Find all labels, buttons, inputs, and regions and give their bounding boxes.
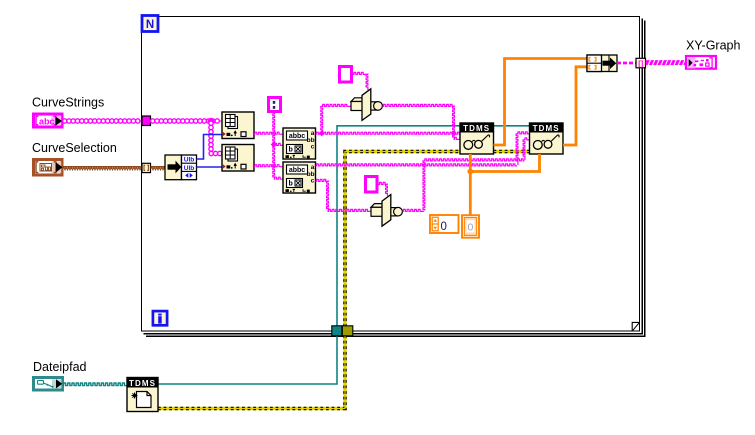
wire string branch up to Select 1 input	[321, 104, 351, 133]
control terminal Dateipfad (path)	[34, 378, 63, 391]
wire string Match Pattern 2 'c' output to Select 2 input	[316, 179, 372, 211]
Index Array 1	[222, 112, 254, 139]
svg-text:abc: abc	[39, 116, 55, 126]
wire string Index Array 1 to Match Pattern 1	[254, 132, 283, 134]
junction orange wire	[467, 169, 473, 175]
wire tdms-refnum TDMS Open to loop tunnel and TDMS Read 1	[158, 126, 460, 384]
control terminal CurveStrings (array of strings)	[34, 114, 63, 127]
svg-text:0: 0	[441, 221, 447, 233]
empty string constant 2	[366, 177, 378, 193]
Index Array 2	[222, 145, 254, 172]
indicator terminal XY-Graph	[686, 56, 716, 69]
wire CurveSelection brown array to loop tunnel	[63, 167, 143, 170]
TDMS Open node	[127, 378, 158, 412]
wire string Match Pattern 1 'a' output to TDMS Read 1 group input	[316, 132, 461, 134]
wire error TDMS Open to loop tunnel and TDMS Read 1	[158, 152, 460, 409]
wire string Select 2 output to TDMS Read 2 channel input	[403, 138, 530, 212]
TDMS Read 1	[460, 123, 494, 154]
svg-text:b: b	[289, 181, 293, 188]
wire chain tunnel to Index Array 1	[151, 119, 223, 123]
converter node U8-array (arrow icon with Ulb outputs)	[165, 155, 197, 180]
svg-text:Ulb: Ulb	[184, 165, 195, 172]
wire string constant 1 to Select 1 top input	[353, 72, 368, 90]
svg-text:0: 0	[467, 221, 473, 233]
wire dbl-array TDMS Read 1 output to Bundle input 1	[494, 59, 588, 146]
wire string ':' constant down to Match Pattern inputs	[273, 113, 283, 179]
wire string Select 1 output to TDMS Read 1 channel input	[383, 104, 461, 139]
wire string Match Pattern 2 'a' output to TDMS Read 2 group input	[316, 132, 530, 166]
wire chain vertical branch down to Index Array 2	[209, 121, 213, 154]
wire CurveStrings array-of-string chain to loop tunnel	[63, 119, 143, 123]
svg-text:TDMS: TDMS	[463, 124, 490, 133]
svg-text:abbc: abbc	[289, 133, 305, 140]
label CurveStrings	[32, 95, 104, 109]
label Dateipfad	[33, 360, 87, 374]
Bundle node	[587, 55, 617, 72]
wire u8 Ulb2 to Index Array 2 index input	[197, 166, 223, 168]
wire cluster Bundle to loop tunnel	[617, 62, 636, 65]
control terminal CurveSelection (array of enums)	[34, 160, 63, 176]
Match Pattern 1	[283, 128, 316, 159]
wire tdms-refnum TDMS Read 1 to TDMS Read 2	[494, 125, 530, 127]
tunnel auto-index XY output	[636, 58, 646, 68]
wire brown tunnel to converter node	[151, 167, 166, 170]
wire array-of-cluster tunnel to XY-Graph terminal	[646, 60, 686, 66]
for-loop resize grip	[632, 322, 639, 330]
svg-text:N: N	[146, 19, 154, 31]
svg-text:Ulb: Ulb	[184, 157, 195, 164]
svg-text:c: c	[311, 143, 315, 150]
numeric indicator '0'	[462, 215, 479, 238]
svg-text:XY-Graph: XY-Graph	[686, 39, 740, 53]
wire dbl-array TDMS Read 2 output to Bundle input 2	[563, 67, 587, 145]
wire path Dateipfad to TDMS Open	[63, 383, 128, 386]
svg-text:CurveStrings: CurveStrings	[32, 95, 104, 109]
wire dbl junction across to TDMS Read 2 bottom port	[470, 154, 539, 172]
numeric control '0' (count)	[430, 215, 459, 233]
tunnel error on loop bottom border	[342, 326, 353, 336]
wire error TDMS Read 1 to TDMS Read 2	[494, 150, 530, 153]
junction Match Pattern 1 output wire	[319, 130, 325, 136]
wire u8 Ulb1 to Index Array 1 index input	[197, 135, 223, 160]
tunnel tdms-refnum on loop bottom border	[332, 326, 342, 336]
wire dbl TDMS Read 1 bottom port down to indicator	[469, 154, 472, 215]
wire string constant 2 to Select 2 top input	[379, 182, 388, 196]
tunnel CurveStrings (solid magenta)	[142, 116, 151, 126]
junction ':' wire	[271, 142, 277, 148]
Match Pattern 2	[283, 162, 316, 193]
tunnel CurveSelection	[142, 163, 151, 172]
TDMS Read 2	[530, 123, 564, 154]
Select 2 (funnel)	[371, 195, 402, 227]
for-loop frame border	[142, 17, 645, 337]
svg-text:TDMS: TDMS	[129, 379, 156, 388]
junction chain wire	[207, 117, 214, 124]
svg-text:[]: []	[638, 59, 643, 68]
wire string Index Array 2 to Match Pattern 2	[254, 165, 283, 167]
svg-text:abbc: abbc	[289, 167, 305, 174]
label XY-Graph	[686, 39, 740, 53]
svg-text:b: b	[289, 147, 293, 154]
svg-text:Dateipfad: Dateipfad	[33, 360, 87, 374]
svg-text:CurveSelection: CurveSelection	[32, 141, 117, 155]
Select 1 (funnel)	[351, 89, 382, 121]
for-loop count terminal N	[142, 16, 158, 32]
wire chain into Index Array 2	[209, 151, 222, 155]
label CurveSelection	[32, 141, 117, 155]
svg-text:TDMS: TDMS	[533, 124, 560, 133]
for-loop iteration terminal i	[153, 311, 167, 325]
svg-text:c: c	[311, 177, 315, 184]
empty string constant 1	[340, 67, 352, 83]
string constant ':'	[269, 98, 281, 112]
